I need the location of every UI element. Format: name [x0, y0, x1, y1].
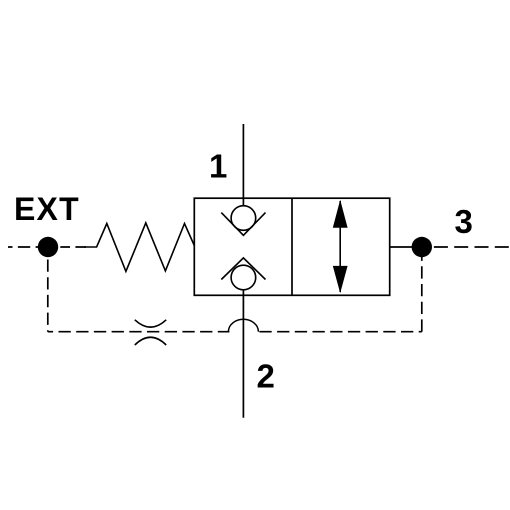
wire: port 1 vertical line [242, 124, 244, 206]
svg-text:EXT: EXT [14, 191, 80, 227]
spring (pilot spring) [84, 223, 194, 272]
wire: dashed pilot down from node EXT [47, 258, 49, 332]
wire hop over port 2 line [228, 319, 258, 331]
valve body box [194, 198, 389, 295]
check valve CV1 seat [221, 213, 265, 236]
check valve CV2 seat [221, 258, 265, 280]
flow arrow head up [333, 200, 348, 228]
svg-text:2: 2 [257, 358, 275, 395]
wire: dashed line node 3 to right edge [432, 246, 510, 248]
wire: port 2 vertical line [242, 290, 244, 418]
orifice restrictor upper arc [135, 320, 166, 327]
svg-text:1: 1 [209, 148, 227, 185]
check valve CV1 ball [231, 206, 256, 231]
flow arrow head down [333, 266, 348, 293]
node 3 junction [412, 237, 432, 257]
wire: dashed pilot up to node 3 [421, 257, 423, 332]
wire: dashed segment from node to spring [60, 246, 86, 248]
wire: dashed pilot bottom right segment [257, 331, 421, 333]
valve body divider [291, 198, 293, 295]
node EXT junction [38, 237, 58, 257]
flow arrow shaft [339, 201, 341, 292]
wire: dashed pilot bottom left segment [48, 331, 230, 333]
svg-text:3: 3 [455, 203, 473, 240]
orifice restrictor lower arc [135, 337, 166, 345]
wire: dashed pilot line from left edge to node EXT [8, 246, 39, 248]
wire: box to node 3 [390, 246, 413, 248]
check valve CV2 ball [231, 265, 256, 290]
